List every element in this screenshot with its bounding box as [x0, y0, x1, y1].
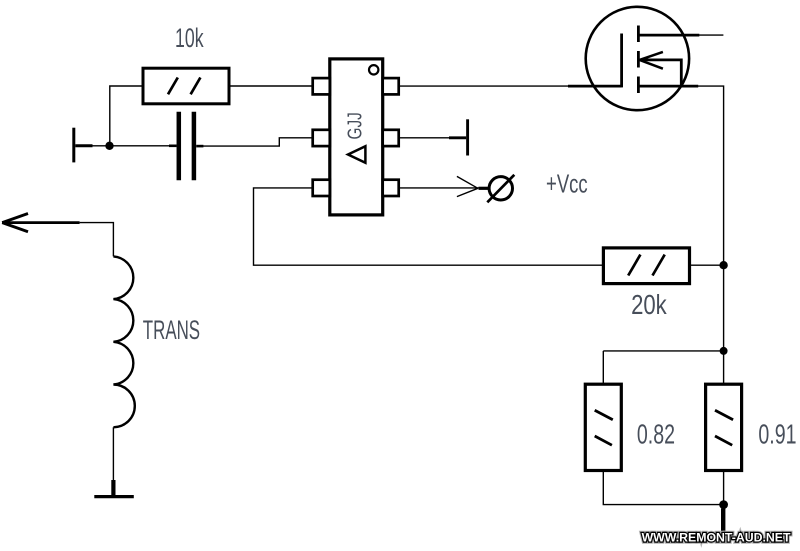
svg-text:0.82: 0.82	[637, 419, 675, 450]
svg-text:10k: 10k	[175, 22, 204, 53]
svg-text:TRANS: TRANS	[143, 315, 200, 345]
svg-text:0.91: 0.91	[758, 419, 796, 450]
svg-text:20k: 20k	[631, 290, 667, 321]
svg-text:GJJ: GJJ	[343, 112, 366, 139]
svg-text:+Vcc: +Vcc	[546, 169, 588, 198]
svg-text:WWW.REMONT-AUD.NET: WWW.REMONT-AUD.NET	[642, 530, 791, 544]
